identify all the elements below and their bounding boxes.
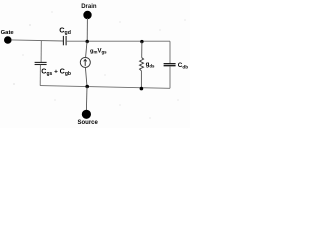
svg-text:Gate: Gate — [1, 30, 15, 36]
svg-text:Source: Source — [78, 120, 99, 126]
svg-text:gmVgs: gmVgs — [90, 48, 107, 54]
svg-text:Drain: Drain — [81, 4, 97, 10]
